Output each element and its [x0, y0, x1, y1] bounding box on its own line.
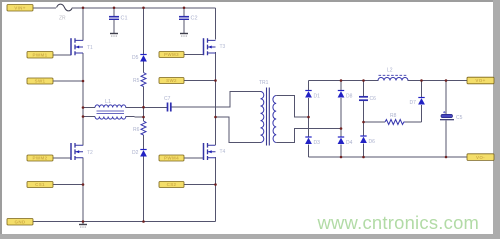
- svg-text:T1: T1: [87, 45, 93, 51]
- svg-text:L2: L2: [387, 68, 393, 74]
- svg-text:CS2: CS2: [167, 182, 177, 187]
- svg-text:R8: R8: [390, 113, 397, 119]
- svg-text:T4: T4: [220, 149, 226, 155]
- svg-text:SW1: SW1: [35, 79, 46, 84]
- svg-text:ZR: ZR: [59, 16, 66, 22]
- svg-text:GND: GND: [14, 219, 25, 224]
- svg-text:PWM1: PWM1: [33, 52, 48, 57]
- svg-text:D2: D2: [132, 150, 139, 156]
- svg-text:C7: C7: [164, 96, 171, 102]
- svg-text:D3: D3: [314, 140, 321, 146]
- svg-text:D8: D8: [346, 94, 353, 100]
- svg-text:PWM2: PWM2: [33, 156, 48, 161]
- svg-text:SW2: SW2: [166, 78, 177, 83]
- svg-text:C6: C6: [370, 96, 377, 102]
- svg-text:PWM4: PWM4: [164, 156, 179, 161]
- svg-text:C2: C2: [191, 16, 198, 22]
- svg-text:CS1: CS1: [35, 182, 45, 187]
- svg-text:D4: D4: [346, 140, 353, 146]
- svg-text:C1: C1: [121, 16, 128, 22]
- svg-text:L1: L1: [105, 99, 111, 105]
- svg-text:VIN+: VIN+: [14, 5, 26, 10]
- svg-text:R6: R6: [133, 127, 140, 133]
- svg-text:www.cntronics.com: www.cntronics.com: [317, 212, 480, 233]
- svg-text:C5: C5: [456, 115, 463, 121]
- svg-text:T2: T2: [87, 150, 93, 156]
- svg-text:VO+: VO+: [475, 78, 485, 83]
- svg-text:D7: D7: [410, 100, 417, 106]
- svg-text:VO-: VO-: [476, 155, 485, 160]
- svg-text:D1: D1: [314, 94, 321, 100]
- svg-text:T3: T3: [220, 44, 226, 50]
- svg-text:PWM3: PWM3: [164, 52, 179, 57]
- svg-text:R5: R5: [133, 78, 140, 84]
- svg-text:TR1: TR1: [259, 80, 269, 86]
- svg-text:D6: D6: [369, 139, 376, 145]
- svg-text:D5: D5: [132, 55, 139, 61]
